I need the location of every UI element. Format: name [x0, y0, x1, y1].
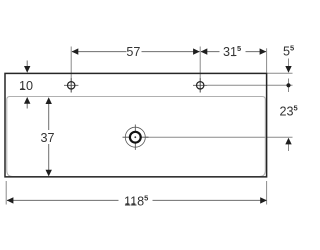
svg-text:37: 37 — [40, 131, 54, 145]
svg-text:10: 10 — [19, 79, 33, 93]
svg-text:57: 57 — [126, 45, 140, 59]
